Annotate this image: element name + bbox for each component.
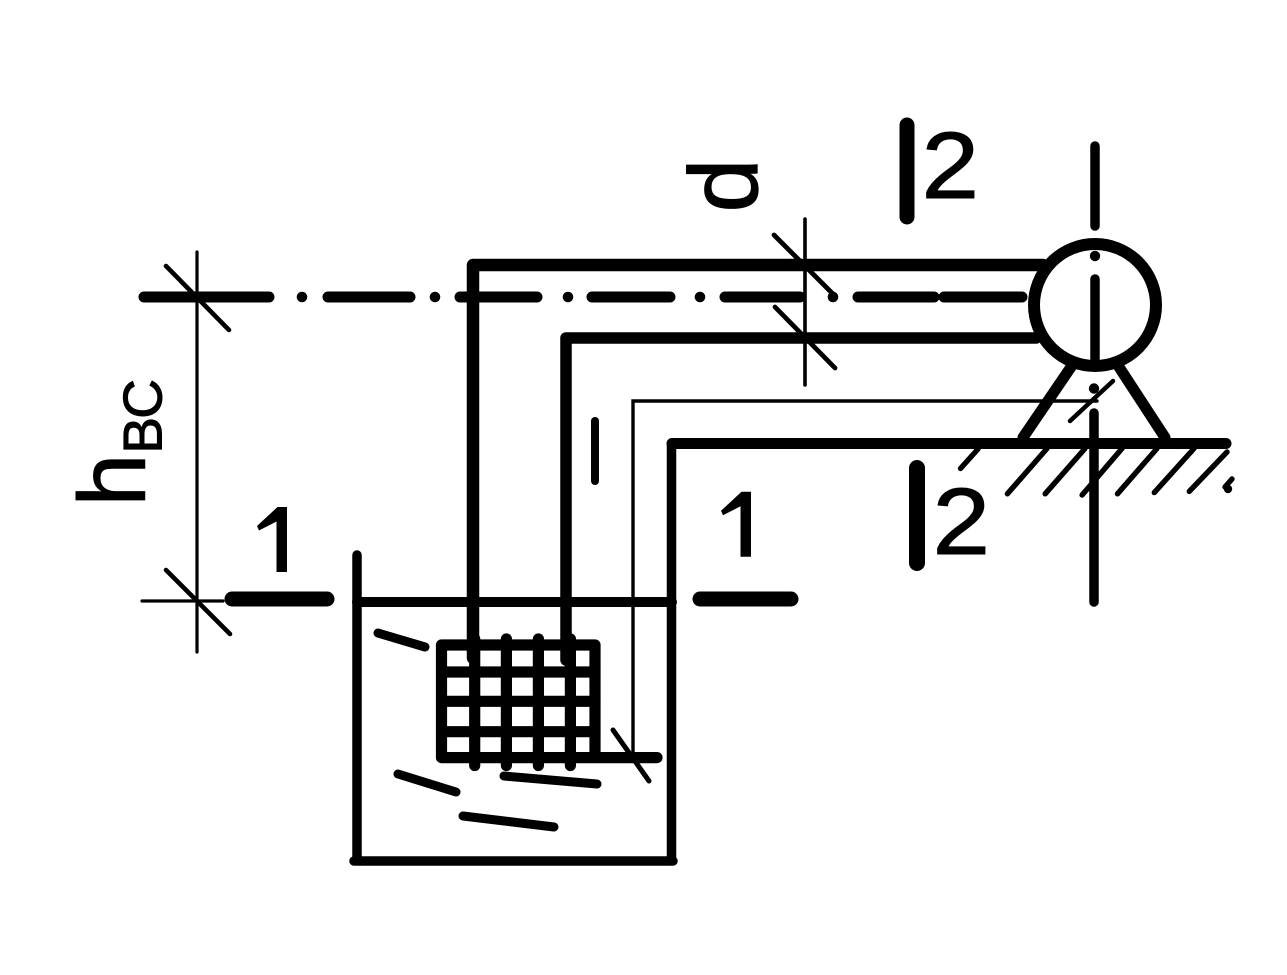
svg-text:d: d (669, 159, 778, 213)
svg-text:2: 2 (933, 469, 991, 575)
svg-text:2: 2 (922, 113, 980, 219)
